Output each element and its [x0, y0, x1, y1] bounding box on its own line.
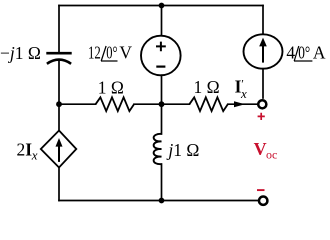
junction dot: node B [159, 101, 165, 107]
svg-text:1 Ω: 1 Ω [98, 77, 124, 97]
dependent current source D1 diamond [41, 131, 77, 168]
current source I1 circle [244, 34, 283, 68]
label: red minus at terminal b [257, 189, 265, 191]
resistor R2 zigzag [189, 97, 227, 111]
svg-text:j1 Ω: j1 Ω [166, 140, 199, 160]
svg-text:x: x [240, 86, 247, 101]
junction dot: top rail at V1 branch [159, 3, 165, 9]
current source I1 arrow shaft [262, 45, 264, 63]
terminal b (open circle, - output) [259, 197, 267, 205]
svg-text:V: V [119, 43, 132, 63]
svg-text:1 Ω: 1 Ω [194, 77, 220, 97]
value label: angle underline of V1 [101, 60, 118, 62]
voltage source V1 circle [141, 36, 181, 76]
svg-text:A: A [313, 43, 326, 63]
svg-text:2I: 2I [17, 139, 33, 159]
svg-text:V: V [254, 139, 267, 159]
dependent source D1 arrow shaft [58, 145, 60, 162]
wire: middle rail left (node A to resistor R1) [59, 103, 96, 105]
wire: middle rail right (R2 to terminal a) [228, 103, 258, 105]
current source I1 arrow head [259, 38, 267, 47]
voltage source V1 plus sign [156, 42, 166, 52]
wire: V1 branch lower (voltage source V1 to node B) [161, 75, 163, 104]
value label: angle underline of I1 [294, 60, 312, 62]
wire: left branch upper (top rail to capacitor C1) [58, 6, 60, 54]
dependent source D1 arrow head [56, 138, 63, 147]
terminal a (open circle, + output) [258, 100, 266, 108]
wire: left branch middle (capacitor C1 to node A) [58, 60, 60, 104]
junction dot: node A [56, 101, 62, 107]
current arrow Ix-prime head [234, 101, 245, 107]
svg-text:12: 12 [88, 43, 101, 63]
value label: angle slash of I1 [294, 46, 299, 61]
svg-text:−j1 Ω: −j1 Ω [0, 43, 41, 63]
wire: L1 branch upper (node B to inductor) [161, 104, 163, 134]
resistor R1 zigzag [96, 97, 134, 111]
svg-text:oc: oc [266, 147, 277, 161]
wire: middle rail between node B and R2 [162, 103, 190, 105]
svg-text:0°: 0° [298, 43, 310, 63]
wire: right branch upper (top rail to current source I1) [262, 6, 264, 36]
wire: right branch (current source I1 to terminal a) [262, 69, 264, 98]
wire: left branch lower (dependent source to bottom rail) [58, 168, 60, 201]
value label: angle slash of V1 [101, 46, 106, 61]
wire: top rail [59, 5, 263, 7]
capacitor C1 curved plate [47, 60, 71, 64]
wire: V1 branch upper (top rail to voltage source V1) [161, 6, 163, 37]
voltage source V1 minus sign [156, 65, 165, 67]
wire: middle rail between R1 and node B [134, 103, 162, 105]
wire: left branch (node A to dependent source) [58, 104, 60, 130]
inductor L1 coil [154, 134, 162, 164]
junction dot: bottom rail at L1 branch [159, 198, 165, 204]
capacitor C1 flat plate [46, 52, 71, 55]
svg-text:x: x [31, 148, 38, 163]
wire: bottom rail [59, 200, 258, 202]
label: red plus at terminal a [258, 113, 265, 120]
svg-text:0°: 0° [106, 43, 117, 63]
wire: L1 branch lower (inductor to bottom rail) [161, 164, 163, 201]
